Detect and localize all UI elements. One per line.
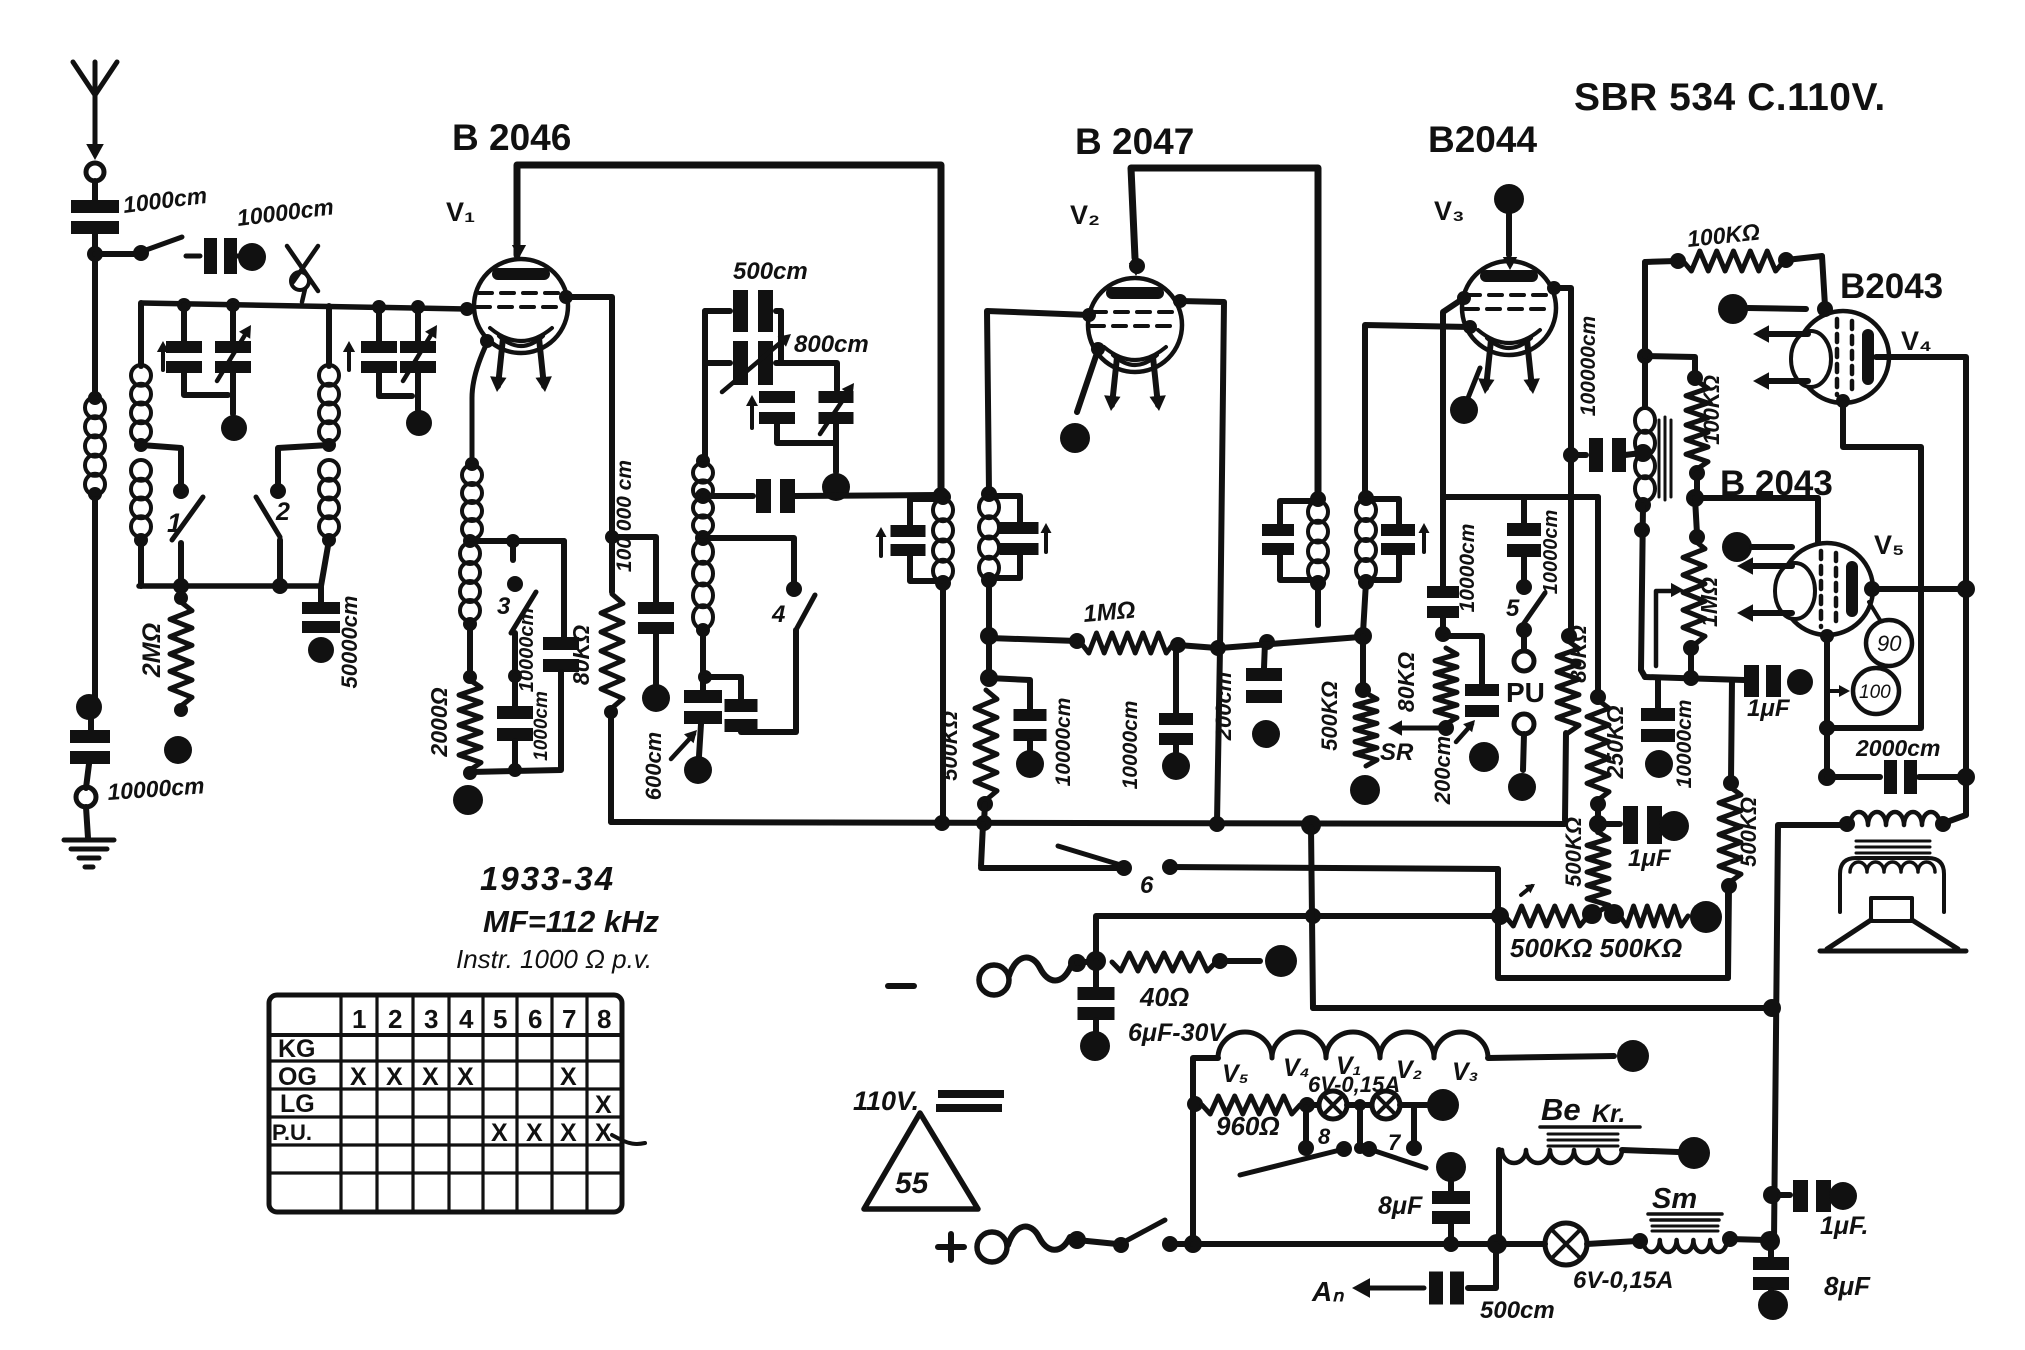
svg-text:8: 8 — [597, 1004, 611, 1034]
svg-text:500KΩ: 500KΩ — [1317, 681, 1342, 751]
node — [508, 669, 522, 683]
wire — [92, 494, 98, 700]
wire — [92, 181, 98, 200]
resistor 2M — [174, 591, 188, 605]
jack PU upper — [1514, 651, 1534, 671]
node — [177, 298, 191, 312]
node — [173, 578, 189, 594]
tick — [1869, 602, 1880, 620]
arrow into tube — [1503, 257, 1517, 270]
node — [1689, 465, 1705, 481]
node — [1438, 720, 1454, 736]
wire — [326, 306, 332, 366]
node — [1817, 301, 1833, 317]
node — [981, 572, 997, 588]
svg-text:7: 7 — [562, 1004, 576, 1034]
svg-text:50000cm: 50000cm — [337, 596, 362, 689]
capacitor 100000cm — [638, 602, 674, 614]
wire drop a — [1303, 1107, 1309, 1143]
svg-text:200cm: 200cm — [1211, 672, 1236, 742]
node — [1686, 489, 1704, 507]
arrow 600cm — [671, 734, 694, 759]
potentiometer 500K right — [1620, 906, 1688, 926]
svg-text:500KΩ: 500KΩ — [937, 711, 962, 781]
svg-text:500KΩ: 500KΩ — [1736, 797, 1761, 867]
wire — [138, 540, 144, 586]
svg-text:X: X — [457, 1063, 474, 1091]
pin V2 grid right — [1173, 294, 1187, 308]
node — [1358, 490, 1374, 506]
core lines — [1652, 1226, 1718, 1231]
arrow 200cm — [1456, 724, 1472, 742]
node — [980, 669, 998, 687]
core lines — [1659, 417, 1671, 500]
svg-text:X: X — [595, 1119, 612, 1147]
wire — [1622, 1150, 1678, 1152]
svg-text:1MΩ: 1MΩ — [1082, 597, 1136, 628]
resistor 40 — [1112, 953, 1216, 971]
resistor 80K a — [601, 594, 623, 708]
svg-text:6μF-30V: 6μF-30V — [1128, 1019, 1227, 1047]
speaker cone — [1820, 920, 1966, 951]
wire V2 grid — [987, 311, 1089, 492]
node — [463, 670, 477, 684]
resistor 100K b — [1686, 381, 1708, 469]
wire — [1178, 645, 1217, 648]
capacitor 10000cm (box) — [512, 676, 518, 706]
node — [1561, 628, 1577, 644]
terminal dot V3 top — [1494, 184, 1524, 214]
capacitor 1uF a — [1604, 821, 1620, 827]
node — [1129, 258, 1145, 274]
node — [1212, 953, 1228, 969]
capacitor 200cm b — [1446, 636, 1482, 684]
svg-text:V₃: V₃ — [1452, 1058, 1478, 1086]
node — [1632, 1233, 1648, 1249]
triangle 55 — [864, 1113, 978, 1209]
wire — [1786, 256, 1825, 306]
node — [411, 300, 425, 314]
node — [1184, 1235, 1202, 1253]
svg-text:500KΩ: 500KΩ — [1561, 817, 1586, 887]
wire — [278, 445, 329, 491]
wire — [470, 672, 561, 772]
coil L3a — [319, 365, 339, 386]
wire V4 anode — [1876, 357, 1966, 815]
svg-text:B 2046: B 2046 — [452, 117, 571, 158]
wire — [1363, 582, 1366, 633]
node — [1209, 816, 1225, 832]
capacitor tuning block1 fixed — [166, 341, 202, 353]
capacitor 8uF b — [1768, 1243, 1774, 1257]
node — [1435, 626, 1451, 642]
node — [226, 298, 240, 312]
pin V1 cathode — [480, 334, 494, 348]
choke BeKr riser — [1496, 1150, 1502, 1242]
wire drop c — [1411, 1105, 1417, 1143]
terminal dot — [1427, 1089, 1459, 1121]
svg-text:1MΩ: 1MΩ — [1696, 577, 1722, 627]
wire — [989, 678, 1030, 709]
resistor 960 — [1202, 1096, 1300, 1114]
node — [322, 533, 336, 547]
trimmer capacitor osc L — [759, 391, 795, 403]
wire — [1694, 473, 1700, 496]
node — [1361, 1141, 1377, 1157]
capacitor 10000cm (box right) — [543, 637, 579, 650]
resistor 1M — [1081, 633, 1174, 653]
svg-text:4: 4 — [459, 1004, 474, 1034]
wire B minus riser — [1096, 916, 1313, 964]
wire — [86, 764, 89, 788]
wire drop b — [1354, 1099, 1366, 1111]
jack PU lower — [1514, 714, 1534, 734]
terminal dot block1 — [221, 415, 247, 441]
node L3 tap — [322, 438, 336, 452]
node — [935, 489, 951, 505]
svg-text:100KΩ: 100KΩ — [1699, 375, 1724, 445]
node — [1443, 1236, 1459, 1252]
coil osc b — [693, 540, 713, 564]
svg-text:MF=112 kHz: MF=112 kHz — [483, 904, 660, 939]
svg-text:V₅: V₅ — [1222, 1060, 1249, 1088]
svg-text:5: 5 — [493, 1004, 507, 1034]
svg-text:100000cm: 100000cm — [1577, 316, 1600, 416]
capacitor 2000cm — [1827, 774, 1880, 780]
wire to switch 4 — [703, 538, 794, 584]
grid bus wire — [142, 303, 466, 309]
node — [976, 815, 992, 831]
capacitor 8uF a — [1436, 1152, 1466, 1182]
wire — [1228, 958, 1260, 964]
terminal dot — [1690, 901, 1722, 933]
svg-text:2MΩ: 2MΩ — [138, 623, 166, 678]
terminal dot — [684, 756, 712, 784]
wire — [1180, 301, 1224, 822]
wire — [776, 363, 837, 390]
node — [463, 534, 477, 548]
capacitor 600cm — [700, 677, 706, 690]
underline — [1540, 1125, 1640, 1129]
node — [1637, 348, 1653, 364]
wire x1313 — [1311, 827, 1313, 1008]
wire — [138, 303, 144, 366]
node — [1406, 1140, 1422, 1156]
terminal dot block2 — [406, 410, 432, 436]
svg-text:10000cm: 10000cm — [1119, 701, 1142, 790]
wire — [612, 537, 656, 602]
node — [1590, 689, 1606, 705]
lamp 1 — [1307, 1102, 1318, 1108]
capacitor 500cm — [705, 308, 730, 314]
potentiometer 500K left — [1505, 906, 1588, 926]
switch mains — [1113, 1237, 1129, 1253]
node — [465, 457, 479, 471]
svg-text:500cm: 500cm — [1480, 1297, 1555, 1324]
wire — [1587, 1241, 1637, 1244]
node — [1259, 634, 1275, 650]
wire V1 grid right — [566, 297, 612, 592]
pin V3 grid left — [1457, 291, 1471, 305]
svg-text:3: 3 — [497, 593, 511, 620]
svg-text:960Ω: 960Ω — [1216, 1111, 1280, 1141]
wiper 1M — [1671, 583, 1684, 597]
wire — [1944, 815, 1966, 823]
svg-text:80KΩ: 80KΩ — [568, 625, 594, 685]
svg-text:P.U.: P.U. — [272, 1120, 312, 1145]
node — [1634, 444, 1652, 462]
fuse squiggle — [1008, 1227, 1070, 1250]
coil Sm — [1643, 1240, 1727, 1252]
capacitor 1uF b — [1744, 665, 1759, 697]
bottom bus wire — [139, 583, 321, 589]
terminal dot — [76, 694, 102, 720]
pot box — [1498, 869, 1728, 978]
svg-text:SR: SR — [1380, 739, 1414, 766]
node — [977, 796, 993, 812]
node — [696, 623, 710, 637]
terminal dot — [164, 736, 192, 764]
node — [1299, 1097, 1315, 1113]
node — [1683, 670, 1699, 686]
svg-text:90: 90 — [1877, 631, 1902, 656]
wire V5 anode — [1875, 586, 1963, 592]
wire — [1641, 505, 1645, 677]
terminal minus — [979, 965, 1009, 995]
node — [1305, 908, 1321, 924]
node — [506, 534, 520, 548]
node — [695, 530, 711, 546]
wire — [1645, 356, 1695, 376]
wire — [415, 307, 421, 341]
capacitor 100000cm coupling — [1571, 452, 1586, 458]
wire — [1365, 325, 1470, 495]
wire — [86, 807, 88, 838]
terminal dot — [1645, 750, 1673, 778]
capacitor IF1 primary — [910, 499, 943, 525]
node — [1582, 904, 1602, 924]
wire — [184, 373, 228, 395]
switch 5 — [1521, 497, 1527, 523]
capacitor 200cm a — [1264, 642, 1265, 668]
wire — [141, 445, 181, 491]
terminal dot — [1162, 752, 1190, 780]
svg-text:6: 6 — [1140, 872, 1154, 899]
svg-text:Aₙ: Aₙ — [1311, 1276, 1344, 1307]
svg-text:40Ω: 40Ω — [1139, 982, 1189, 1012]
svg-text:2000cm: 2000cm — [1855, 735, 1940, 761]
node — [1818, 768, 1836, 786]
table band switch — [269, 995, 622, 1212]
svg-text:B2043: B2043 — [1840, 267, 1943, 306]
svg-text:3: 3 — [424, 1004, 438, 1034]
svg-text:6V-0,15A: 6V-0,15A — [1573, 1267, 1674, 1294]
terminal dot — [1469, 742, 1499, 772]
coil IF2 secondary — [1356, 499, 1376, 521]
svg-text:110V.: 110V. — [853, 1086, 919, 1116]
node — [1170, 637, 1186, 653]
tube V3 — [1462, 261, 1556, 394]
node — [981, 486, 997, 502]
resistor 1M b — [1695, 498, 1697, 534]
speaker magnet — [1871, 898, 1912, 921]
svg-text:250KΩ: 250KΩ — [1602, 705, 1628, 779]
wire — [376, 307, 382, 341]
arrow into tube — [512, 245, 526, 258]
coil speaker primary — [1850, 812, 1940, 825]
wire — [833, 424, 839, 472]
wire — [92, 234, 98, 398]
wire — [1077, 1240, 1117, 1244]
wire — [940, 583, 946, 822]
bus B plus — [1193, 1241, 1545, 1247]
capacitor IF2 secondary — [1366, 499, 1399, 524]
svg-text:KG: KG — [278, 1035, 316, 1063]
switch arm 7 — [1369, 1149, 1426, 1168]
svg-text:10000cm: 10000cm — [1052, 698, 1075, 787]
pin V2 grid left — [1082, 308, 1096, 322]
svg-text:V₅: V₅ — [1874, 530, 1904, 560]
svg-text:10000cm: 10000cm — [1456, 524, 1479, 613]
node — [1635, 497, 1651, 513]
svg-text:10000cm: 10000cm — [516, 608, 538, 693]
circle 100 — [1853, 668, 1899, 714]
resistor 500K b — [1587, 832, 1609, 912]
trimmer capacitor block1 — [215, 341, 251, 353]
wire — [1748, 308, 1806, 309]
wire — [1752, 544, 1792, 550]
terminal plus — [977, 1232, 1007, 1262]
coil osc a — [693, 463, 713, 483]
wire — [470, 538, 564, 544]
svg-text:1μF: 1μF — [1747, 695, 1791, 722]
svg-text:500KΩ 500KΩ: 500KΩ 500KΩ — [1510, 933, 1682, 963]
wire — [1313, 913, 1497, 919]
wire — [777, 424, 836, 443]
wire avc drop — [1731, 680, 1732, 780]
capacitor 1uF c — [1780, 1192, 1790, 1198]
svg-text:B2044: B2044 — [1428, 119, 1537, 160]
capacitor 10000cm a — [1014, 709, 1047, 721]
potentiometer SR 500K — [1360, 636, 1366, 688]
node — [1068, 1231, 1086, 1249]
node — [1336, 1141, 1352, 1157]
wire V1 cathode — [472, 343, 487, 462]
lamp 3 — [1545, 1223, 1587, 1265]
anode wire V2 — [1131, 168, 1318, 497]
svg-text:1μF: 1μF — [1628, 845, 1672, 872]
node — [696, 454, 710, 468]
wire — [1170, 1241, 1191, 1247]
wire 1M run b — [1220, 637, 1360, 648]
wire — [700, 630, 706, 676]
arrow — [1422, 528, 1426, 552]
wire — [1595, 804, 1601, 832]
node — [1210, 640, 1226, 656]
svg-text:X: X — [526, 1119, 543, 1147]
resistor 250K — [1587, 700, 1609, 800]
node — [1935, 816, 1951, 832]
terminal dot — [642, 684, 670, 712]
svg-text:OG: OG — [278, 1063, 317, 1091]
node — [1298, 1140, 1314, 1156]
switch 1 — [173, 483, 189, 499]
wire — [702, 311, 708, 458]
node — [1187, 1096, 1203, 1112]
svg-text:X: X — [386, 1063, 403, 1091]
wire V3 grid left — [1443, 298, 1464, 586]
terminal dot — [1678, 1137, 1710, 1169]
terminal dot — [1617, 1040, 1649, 1072]
terminal dot — [1016, 750, 1044, 778]
node — [933, 487, 949, 503]
wire — [1695, 498, 1818, 542]
node — [1590, 796, 1606, 812]
svg-text:V₁: V₁ — [446, 197, 475, 227]
core lines — [1548, 1134, 1618, 1146]
switch (antenna) — [133, 245, 149, 261]
wire — [1730, 1239, 1766, 1240]
tube V4 — [1753, 311, 1889, 403]
wire — [1506, 214, 1512, 255]
wire — [1595, 497, 1601, 694]
svg-text:X: X — [350, 1063, 367, 1091]
twisted coupling X — [287, 246, 318, 291]
pin — [1820, 629, 1834, 643]
node antenna junction — [87, 246, 103, 262]
pin — [1836, 394, 1850, 408]
underline — [1648, 1214, 1722, 1220]
node — [1723, 775, 1739, 791]
wire — [230, 305, 236, 341]
svg-text:100: 100 — [1859, 682, 1891, 703]
node — [1604, 904, 1624, 924]
capacitor 10000cm (earth) — [70, 730, 110, 743]
speaker housing — [1840, 858, 1944, 912]
wire — [95, 251, 140, 257]
earth terminal circle — [76, 787, 96, 807]
wire — [653, 634, 659, 684]
terminal dot — [1350, 775, 1380, 805]
node — [1358, 574, 1374, 590]
lamp 2 — [1347, 1102, 1371, 1108]
wire — [415, 373, 421, 410]
arrow into tube — [1129, 263, 1143, 276]
coil det transformer — [1635, 408, 1655, 433]
svg-text:SBR 534 C.110V.: SBR 534 C.110V. — [1574, 76, 1886, 119]
switch 4 — [786, 581, 802, 597]
capacitor 6uF-30V — [1093, 961, 1099, 987]
svg-text:Kr.: Kr. — [1592, 1100, 1625, 1128]
capacitor 10000cm c — [1427, 586, 1459, 598]
node L2 tap — [134, 438, 148, 452]
trimmer capacitor block2 — [400, 341, 436, 353]
wire — [379, 373, 412, 396]
resistor 2000 — [459, 680, 481, 770]
node — [88, 487, 102, 501]
svg-text:800cm: 800cm — [794, 331, 869, 358]
tick — [1521, 886, 1532, 895]
wire — [1774, 825, 1847, 1241]
terminal dot — [238, 243, 266, 271]
resistor 100K a — [1683, 251, 1784, 271]
svg-text:2: 2 — [275, 498, 290, 526]
wiper SR — [1396, 726, 1446, 731]
antenna — [73, 62, 117, 160]
wire — [1077, 961, 1094, 963]
node — [463, 617, 477, 631]
svg-text:1933-34: 1933-34 — [480, 860, 615, 897]
